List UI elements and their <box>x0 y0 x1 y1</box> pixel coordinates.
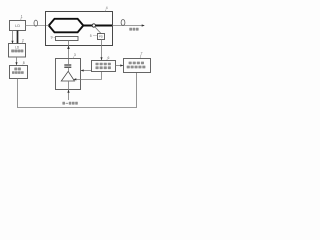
wire bias adjust to driver (arrow left) <box>81 69 92 71</box>
wire bias adjust to bias monitor (arrow right) <box>116 64 124 66</box>
Mach-Zehnder waveguide upper arm <box>49 19 112 26</box>
modulation electrode <box>56 37 79 41</box>
svg-text:PD: PD <box>99 35 103 39</box>
reference numeral 5 <box>90 34 98 38</box>
lens (output) <box>121 20 125 26</box>
reference numeral 1 <box>21 14 23 20</box>
svg-text:6: 6 <box>108 56 110 60</box>
reference numeral 4 <box>105 6 108 11</box>
bias monitor circuit box 7 <box>124 59 151 73</box>
Mach-Zehnder waveguide lower arm <box>49 26 84 33</box>
wire LD to drive circuit (arrow down) <box>11 31 13 44</box>
data signal input arrow <box>67 90 69 100</box>
optical modulator box 4 <box>46 12 113 46</box>
svg-text:9: 9 <box>51 35 53 39</box>
tap wire to PD <box>95 27 101 34</box>
reference numeral 2 <box>22 39 24 44</box>
wire capacitor node <box>68 59 70 90</box>
wire drive circuit to LD (thick) <box>17 31 19 44</box>
wire driver to bias adjust bottom <box>73 72 101 80</box>
coupling capacitor <box>64 65 71 67</box>
output wire <box>113 25 145 27</box>
svg-text:LD: LD <box>15 24 20 28</box>
reference numeral 6 <box>106 56 110 60</box>
optical output label <box>129 28 138 31</box>
svg-text:5: 5 <box>90 34 92 38</box>
reference numeral 7 <box>140 51 143 58</box>
tap coupler circle <box>92 24 95 27</box>
wire oscillator to bias monitor circuit (bottom bus) <box>18 73 137 108</box>
reference numeral 9 <box>51 35 56 39</box>
laser diode LD box 1 <box>10 21 26 31</box>
LD drive circuit box 2 <box>9 44 26 58</box>
background <box>0 0 155 120</box>
signal generator box 8 <box>10 66 28 79</box>
wire PD to bias adjust (arrow down) <box>100 40 102 61</box>
output arrow head <box>142 24 145 26</box>
wire driver to electrode (arrow up) <box>67 41 70 59</box>
svg-text:LD: LD <box>15 46 20 50</box>
bias adjustment circuit box 6 <box>92 61 116 72</box>
amplifier triangle <box>61 71 74 81</box>
data signal label <box>62 102 77 105</box>
reference numeral 3 <box>73 53 76 58</box>
lens (input) <box>34 20 38 26</box>
reference numeral 8 <box>23 61 25 65</box>
wire LD to modulator <box>26 25 49 27</box>
photodiode PD box 5 <box>98 34 105 40</box>
driver amplifier box 3 <box>56 59 81 90</box>
wire drive circuit to oscillator (arrow down) <box>15 57 17 65</box>
